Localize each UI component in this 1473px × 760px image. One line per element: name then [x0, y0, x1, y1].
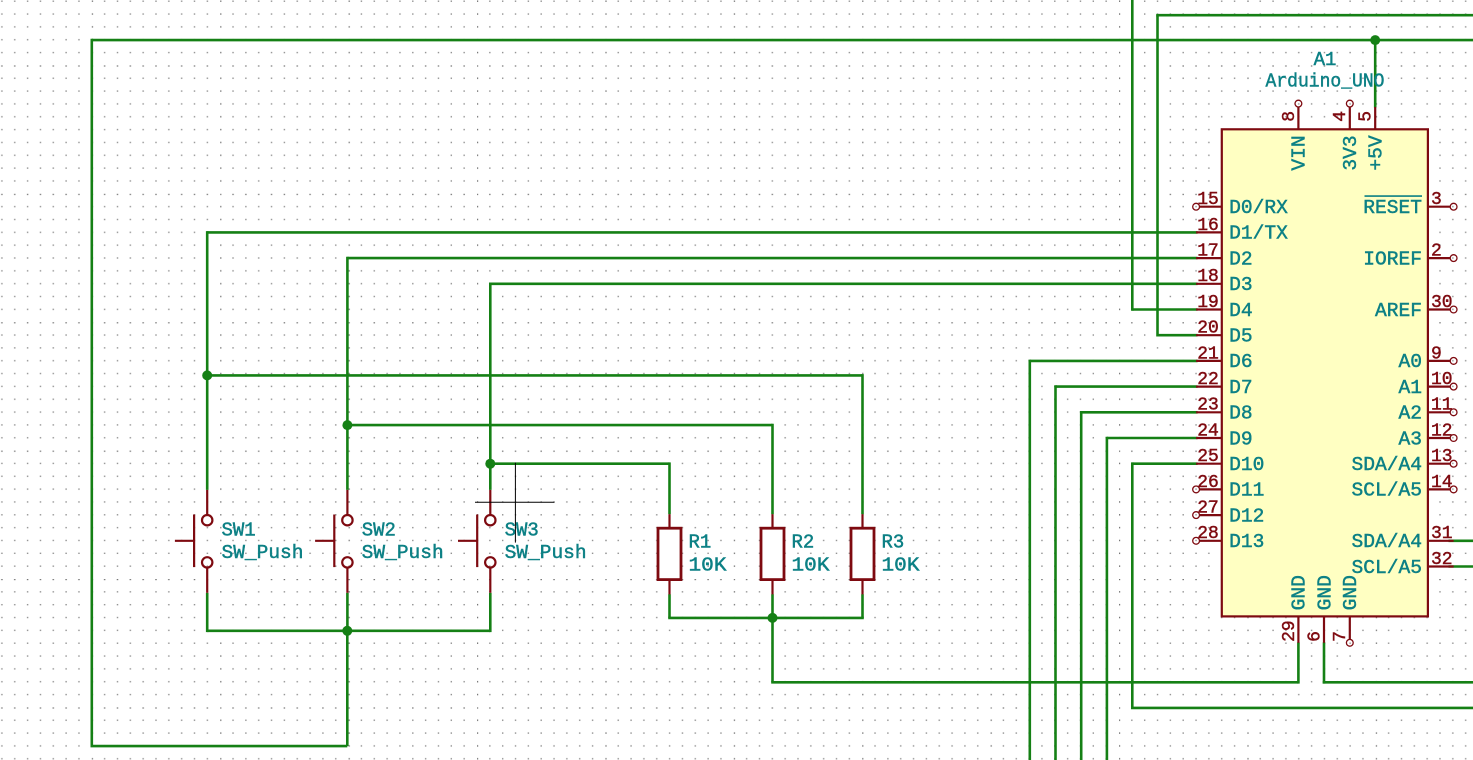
svg-text:23: 23 [1197, 396, 1219, 416]
svg-text:SW3: SW3 [505, 519, 539, 541]
wire D9 vertical to bottom edge [1106, 437, 1109, 760]
wire SW1-R3 horizontal [207, 374, 862, 377]
svg-text:11: 11 [1431, 396, 1453, 416]
wire D7 vertical to bottom edge [1054, 385, 1057, 760]
svg-text:IOREF: IOREF [1363, 248, 1422, 270]
svg-text:SDA/A4: SDA/A4 [1351, 531, 1422, 553]
pin 24 D9 (left) [1196, 421, 1253, 450]
wire D3 vertical SW3 column [489, 283, 492, 490]
svg-text:10K: 10K [882, 554, 921, 576]
pin 11 A2 (right) [1398, 396, 1457, 425]
wire D7 horizontal [1056, 385, 1198, 388]
pin 12 A3 (right) [1398, 421, 1457, 450]
switch SW1 (SW_Push) [175, 490, 213, 593]
wire SW3-R1 horizontal [490, 462, 669, 465]
wire GND horizontal to pin 29 [771, 681, 1298, 684]
svg-text:16: 16 [1197, 216, 1219, 236]
wire R1 bottom vertical [668, 594, 671, 618]
pin 3 RESET (right) [1363, 190, 1457, 219]
Arduino UNO module A1 [1193, 49, 1457, 646]
svg-text:10: 10 [1431, 370, 1453, 390]
svg-text:3V3: 3V3 [1340, 135, 1362, 170]
wire D1/TX vertical SW1 column [206, 231, 209, 490]
svg-text:13: 13 [1431, 447, 1453, 467]
pin 27 D12 (left) [1193, 499, 1265, 528]
svg-text:4: 4 [1331, 111, 1351, 122]
wire R2 top vertical [771, 424, 774, 514]
svg-text:3: 3 [1431, 190, 1442, 210]
wire D2 horizontal [347, 257, 1197, 260]
wire SW2 bottom vertical [346, 593, 349, 631]
pin 22 D7 (left) [1196, 370, 1253, 399]
svg-text:6: 6 [1305, 631, 1325, 642]
svg-text:24: 24 [1197, 421, 1219, 441]
svg-text:27: 27 [1197, 499, 1219, 519]
wire GND horizontal pin 6 to right edge [1323, 681, 1473, 684]
resistor R3 (10K) [851, 514, 874, 594]
wire D10 horizontal [1132, 462, 1197, 465]
junction +5V rail / pin 5 [1370, 35, 1380, 45]
junction SW3 column / R1 branch [485, 459, 495, 469]
pin 17 D2 (left) [1196, 242, 1253, 271]
svg-text:31: 31 [1431, 524, 1453, 544]
svg-text:R1: R1 [689, 531, 712, 553]
svg-text:D4: D4 [1229, 300, 1253, 322]
wire switch bottom bus horizontal [207, 629, 490, 632]
svg-text:SW2: SW2 [362, 519, 396, 541]
svg-text:D3: D3 [1229, 274, 1253, 296]
wire GND drop vertical [771, 618, 774, 682]
svg-text:5: 5 [1357, 111, 1377, 122]
svg-text:12: 12 [1431, 421, 1453, 441]
svg-text:8: 8 [1280, 111, 1300, 122]
wire D6 vertical to bottom edge [1029, 360, 1032, 760]
wire D1/TX horizontal [207, 231, 1197, 234]
svg-text:A2: A2 [1398, 403, 1422, 425]
svg-text:22: 22 [1197, 370, 1219, 390]
junction resistor bus / GND drop [768, 613, 778, 623]
svg-text:26: 26 [1197, 473, 1219, 493]
wire GND pin 6 vertical [1323, 642, 1326, 683]
wire +5V rail left vertical [91, 39, 94, 746]
svg-text:D1/TX: D1/TX [1229, 223, 1288, 245]
wire R3 bottom vertical [861, 594, 864, 618]
svg-text:2: 2 [1431, 242, 1442, 262]
svg-text:21: 21 [1197, 344, 1219, 364]
wire D5 vertical [1156, 15, 1159, 336]
pin 7 GND (bottom) [1331, 575, 1362, 646]
junction SW2 column / R2 branch [342, 420, 352, 430]
svg-text:GND: GND [1289, 575, 1311, 610]
svg-text:D0/RX: D0/RX [1229, 197, 1288, 219]
svg-text:VIN: VIN [1289, 135, 1311, 170]
svg-text:RESET: RESET [1363, 197, 1422, 219]
pin 5 +5V (top) [1357, 107, 1388, 171]
pin 23 D8 (left) [1196, 396, 1253, 425]
svg-text:A1: A1 [1398, 377, 1422, 399]
pin 21 D6 (left) [1196, 344, 1253, 373]
svg-text:18: 18 [1197, 267, 1219, 287]
pin 25 D10 (left) [1196, 447, 1264, 476]
svg-text:D8: D8 [1229, 403, 1253, 425]
svg-text:SW_Push: SW_Push [505, 542, 587, 564]
svg-text:7: 7 [1331, 631, 1351, 642]
svg-text:D10: D10 [1229, 454, 1264, 476]
svg-text:SCL/A5: SCL/A5 [1351, 480, 1422, 502]
wire D10 vertical [1131, 462, 1134, 708]
svg-text:19: 19 [1197, 293, 1219, 313]
pin 15 D0/RX (left) [1193, 190, 1288, 219]
svg-text:D12: D12 [1229, 505, 1264, 527]
svg-text:D9: D9 [1229, 428, 1253, 450]
svg-text:D7: D7 [1229, 377, 1253, 399]
svg-text:A0: A0 [1398, 351, 1422, 373]
pin 28 D13 (left) [1193, 524, 1265, 553]
pin 9 A0 (right) [1398, 344, 1457, 373]
pin 4 3V3 (top) [1331, 100, 1362, 170]
svg-text:25: 25 [1197, 447, 1219, 467]
resistor R1 (10K) [658, 514, 681, 594]
svg-text:D13: D13 [1229, 531, 1264, 553]
svg-text:D5: D5 [1229, 326, 1253, 348]
pin 10 A1 (right) [1398, 370, 1457, 399]
pin 30 AREF (right) [1375, 293, 1457, 322]
svg-text:+5V: +5V [1366, 135, 1388, 171]
svg-text:Arduino_UNO: Arduino_UNO [1266, 71, 1385, 93]
svg-text:A1: A1 [1314, 49, 1337, 71]
svg-text:GND: GND [1314, 575, 1336, 610]
body outline A1 [1222, 129, 1428, 616]
wire D3 horizontal [490, 282, 1197, 285]
wire R2 bottom vertical [771, 594, 774, 618]
pin 32 SCL/A5 (right) [1351, 550, 1453, 579]
wire D5 horizontal [1158, 334, 1198, 337]
wire resistor bottom bus horizontal [668, 617, 864, 620]
pin 2 IOREF (right) [1363, 242, 1457, 271]
svg-text:30: 30 [1431, 293, 1453, 313]
wire D4 vertical to top edge [1131, 0, 1134, 311]
svg-text:28: 28 [1197, 524, 1219, 544]
pin 14 SCL/A5 (right) [1351, 473, 1457, 502]
wire SW2-R2 horizontal [347, 424, 772, 427]
switch SW3 (SW_Push) [458, 490, 495, 593]
junction SW1 column / R3 branch [202, 370, 212, 380]
svg-text:SW_Push: SW_Push [362, 542, 444, 564]
svg-text:R3: R3 [882, 531, 905, 553]
svg-text:SW1: SW1 [222, 519, 256, 541]
svg-text:D2: D2 [1229, 248, 1253, 270]
wire SDA/A4 pin 31 horizontal [1449, 539, 1473, 542]
pin 6 GND (bottom) [1305, 575, 1336, 643]
svg-text:10K: 10K [689, 554, 728, 576]
wire SW1 bottom vertical [206, 593, 209, 632]
svg-text:17: 17 [1197, 242, 1219, 262]
pin 26 D11 (left) [1193, 473, 1265, 502]
wire GND pin 29 vertical [1297, 642, 1300, 683]
svg-text:15: 15 [1197, 190, 1219, 210]
wire D9 horizontal [1107, 437, 1198, 440]
svg-text:A3: A3 [1398, 428, 1422, 450]
wire D6 horizontal [1030, 360, 1198, 363]
pin 19 D4 (left) [1196, 293, 1253, 322]
wire R1 top vertical [668, 462, 671, 514]
svg-text:14: 14 [1431, 473, 1453, 493]
svg-text:SDA/A4: SDA/A4 [1351, 454, 1422, 476]
svg-text:GND: GND [1340, 575, 1362, 610]
wire D2 vertical SW2 column [346, 257, 349, 490]
editing cursor crosshair [475, 463, 554, 543]
wire +5V rail bottom horizontal [91, 745, 348, 748]
wire SW3 bottom vertical [489, 593, 492, 632]
pin 29 GND (bottom) [1280, 575, 1311, 643]
pin 31 SDA/A4 (right) [1351, 524, 1453, 553]
wire D5 top horizontal to right edge [1156, 14, 1473, 17]
wire +5V rail top horizontal [92, 39, 1473, 42]
resistor R2 (10K) [761, 514, 784, 594]
svg-text:D6: D6 [1229, 351, 1253, 373]
svg-text:R2: R2 [792, 531, 815, 553]
wire +5V pin drop [1374, 40, 1377, 107]
pin 8 VIN (top) [1280, 100, 1311, 170]
junction switch bus / SW2 [342, 626, 352, 636]
wire R3 top vertical [861, 374, 864, 514]
wire +5V riser SW2 column [346, 631, 349, 746]
svg-text:29: 29 [1280, 620, 1300, 642]
switch SW2 (SW_Push) [315, 490, 352, 593]
svg-text:32: 32 [1431, 550, 1453, 570]
pin 20 D5 (left) [1196, 319, 1253, 348]
wire D8 vertical to bottom edge [1080, 411, 1083, 760]
svg-text:9: 9 [1431, 344, 1442, 364]
svg-text:AREF: AREF [1375, 300, 1422, 322]
svg-text:D11: D11 [1229, 480, 1264, 502]
wire D8 horizontal [1081, 411, 1197, 414]
wire D4 horizontal [1132, 308, 1197, 311]
pin 18 D3 (left) [1196, 267, 1253, 296]
pin 16 D1/TX (left) [1196, 216, 1288, 245]
wire D10 bottom horizontal to right edge [1131, 707, 1473, 710]
wire SCL/A5 pin 32 horizontal [1449, 565, 1473, 568]
svg-text:SW_Push: SW_Push [222, 542, 304, 564]
svg-text:20: 20 [1197, 319, 1219, 339]
svg-text:10K: 10K [792, 554, 831, 576]
pin 13 SDA/A4 (right) [1351, 447, 1457, 476]
